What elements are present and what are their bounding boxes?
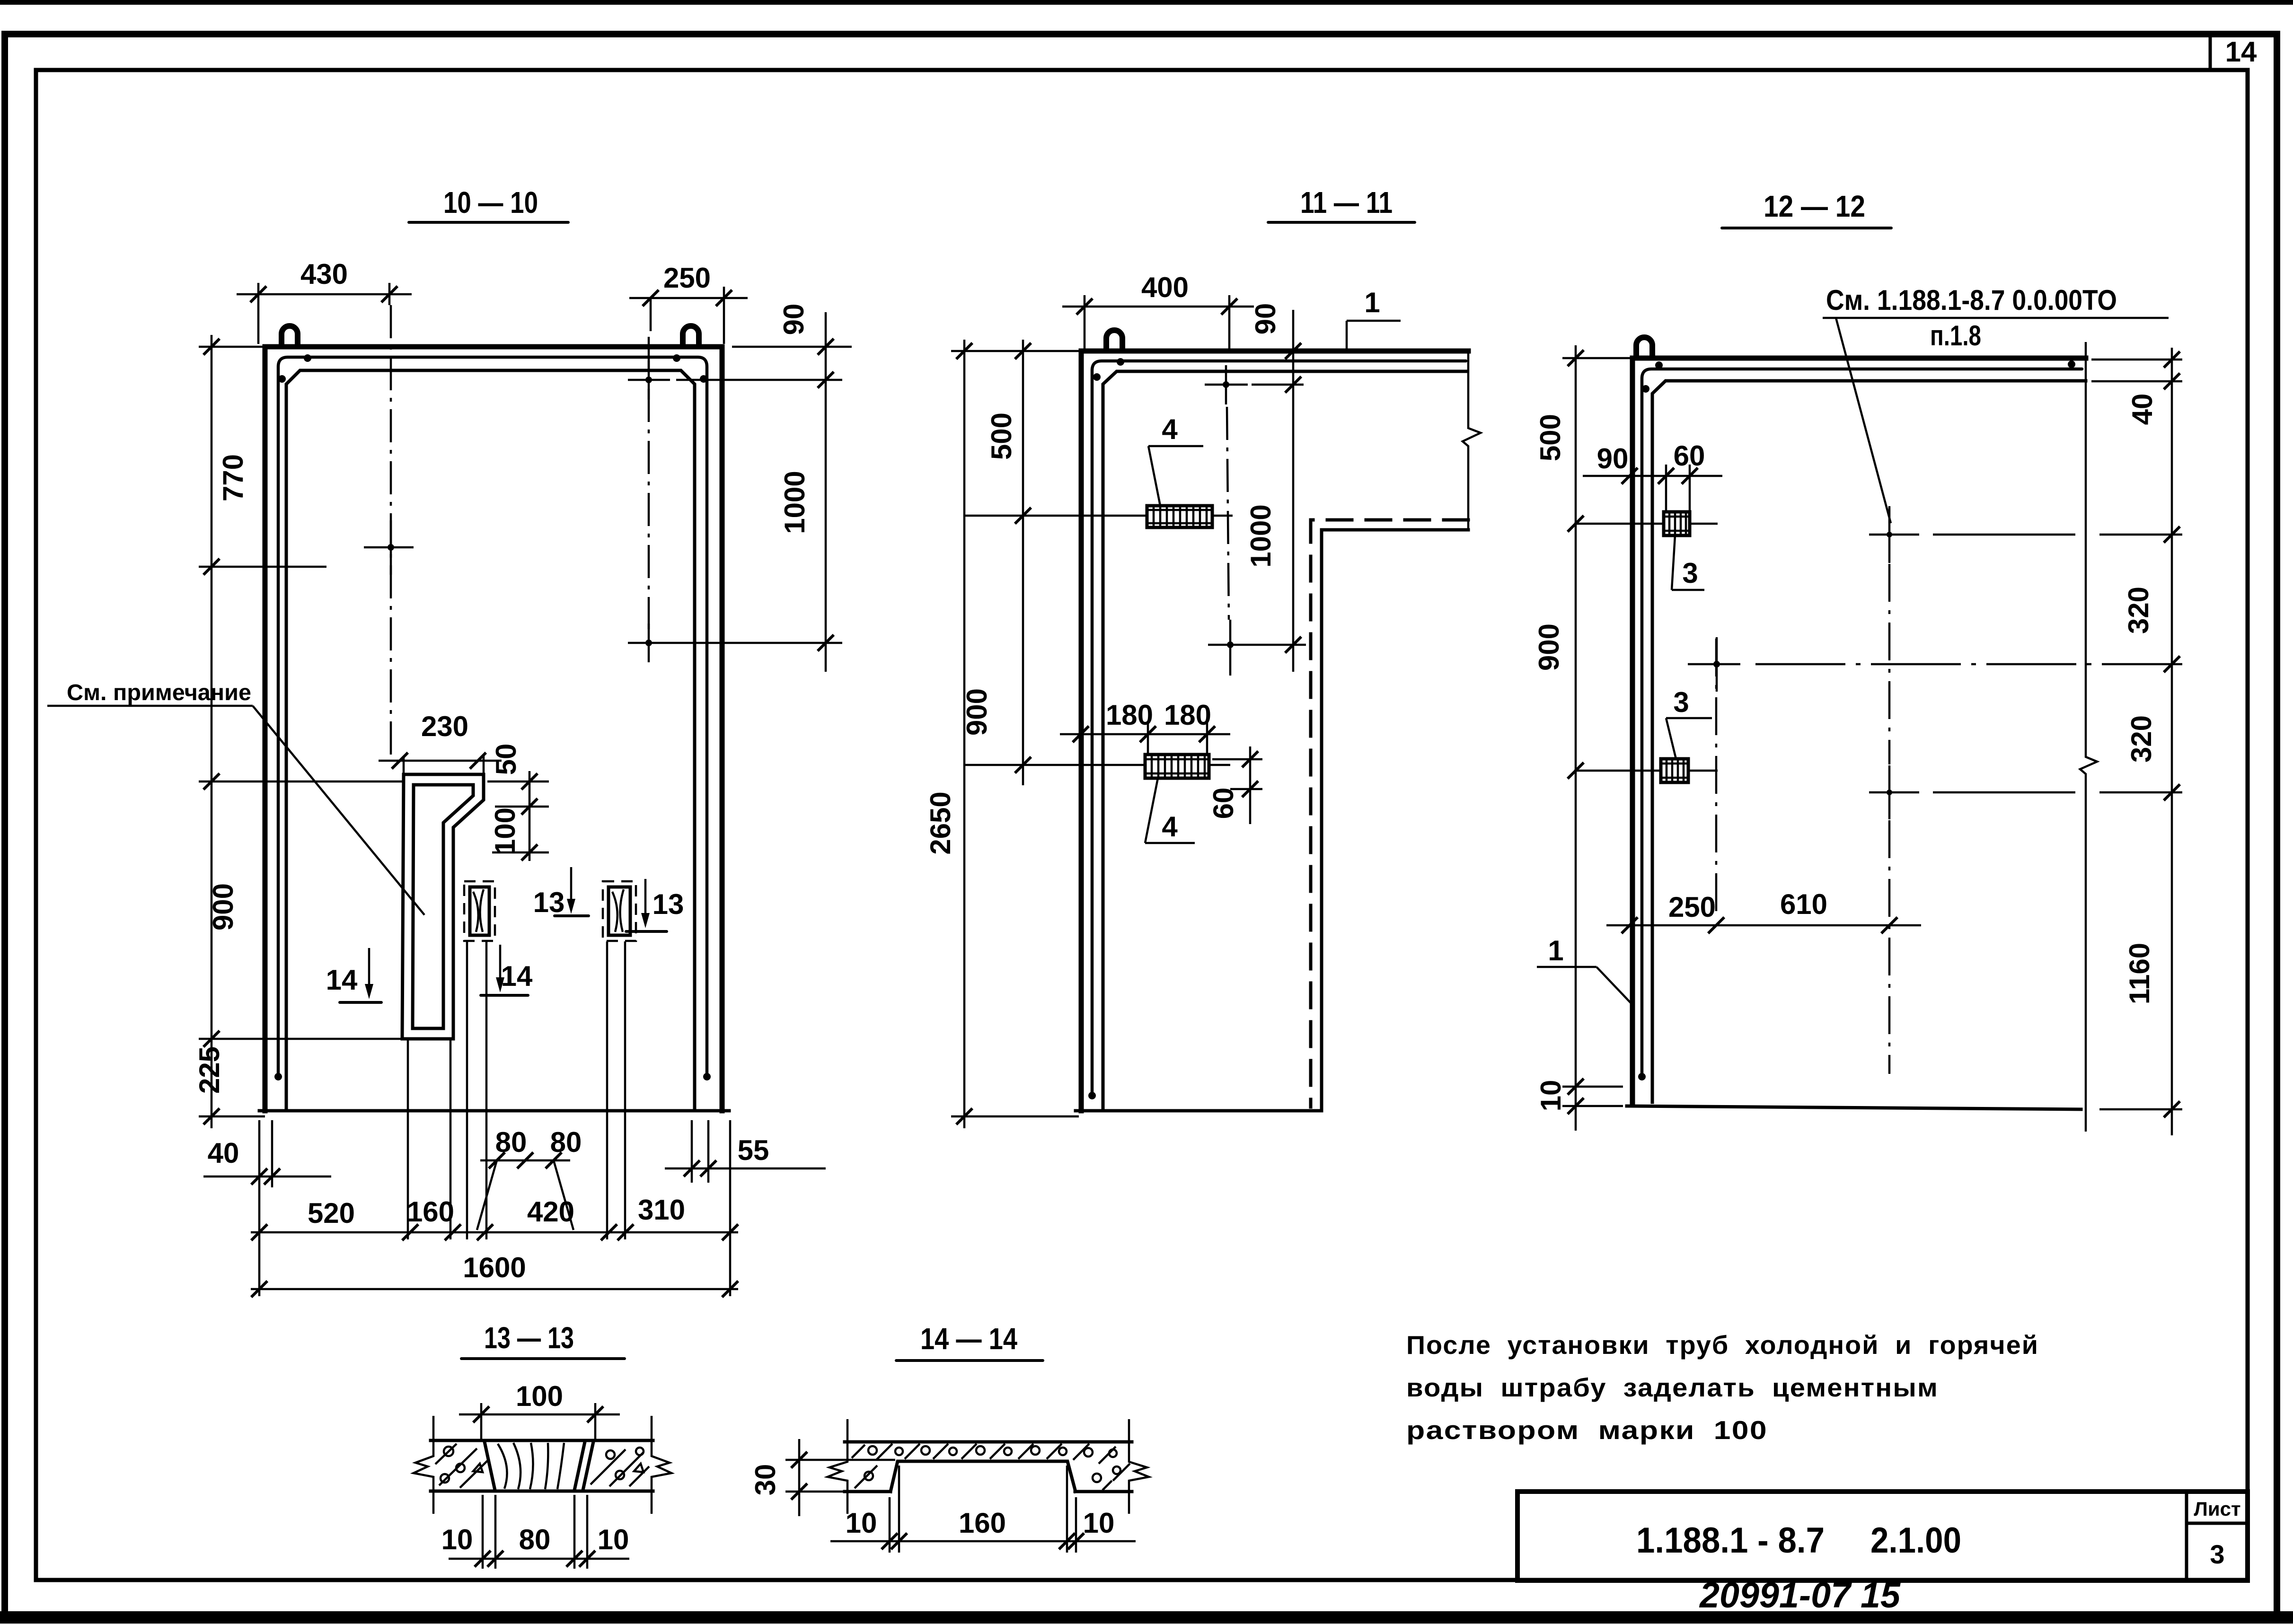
panel inner contour 12-12 [1652, 381, 2086, 1102]
panel inner contour 10-10 [286, 370, 695, 1111]
svg-text:90: 90 [1250, 303, 1281, 335]
svg-text:1000: 1000 [1245, 504, 1277, 567]
centerline right 10-10 [648, 337, 650, 629]
svg-text:225: 225 [194, 1046, 225, 1094]
left dim line 10-10 [199, 335, 405, 1128]
svg-text:4: 4 [1162, 413, 1178, 445]
panel bottom edge 10-10 [259, 1109, 729, 1113]
svg-text:90: 90 [778, 304, 810, 335]
panel bottom edge 12-12 [1627, 1106, 2081, 1109]
svg-text:180: 180 [1106, 699, 1153, 731]
title underline 12-12 [1722, 227, 1891, 229]
crosshair right upper 10-10 [628, 360, 670, 400]
anchor block 3 upper [1664, 512, 1690, 535]
svg-text:11 — 11: 11 — 11 [1300, 185, 1393, 219]
svg-text:13: 13 [533, 887, 565, 918]
svg-text:10: 10 [1083, 1507, 1115, 1539]
panel outer contour 10-10 [265, 347, 722, 1111]
svg-text:14: 14 [2225, 36, 2257, 68]
vertical centerline 12-12 [1888, 564, 1891, 1074]
svg-text:1000: 1000 [779, 471, 811, 534]
svg-text:раствором марки 100: раствором марки 100 [1406, 1415, 1768, 1445]
right dim line 12-12 [2099, 348, 2182, 1135]
svg-text:14: 14 [326, 964, 358, 996]
svg-text:20991-07 15: 20991-07 15 [1699, 1575, 1901, 1615]
anchor block 4 upper [1147, 506, 1212, 527]
svg-text:14 — 14: 14 — 14 [920, 1322, 1017, 1356]
panel outer contour 11-11 [1081, 351, 1468, 1111]
svg-text:250: 250 [1668, 891, 1716, 923]
svg-text:100: 100 [516, 1380, 563, 1412]
lifting loop 12-12 [1636, 337, 1652, 358]
svg-text:80: 80 [550, 1126, 582, 1158]
floor bar 14-14 top [845, 1440, 1132, 1444]
svg-text:10 — 10: 10 — 10 [443, 185, 538, 219]
rebar line 10-10 [278, 357, 707, 1077]
svg-text:770: 770 [217, 454, 249, 501]
block centerline lower 12-12 [1574, 770, 1718, 772]
svg-text:10: 10 [441, 1524, 473, 1555]
section marker 14 left [326, 948, 381, 1002]
rebar dots 10-10 [274, 1073, 282, 1080]
svg-text:Лист: Лист [2194, 1498, 2240, 1520]
dim 100 channel [489, 808, 549, 860]
title underline 13-13 [461, 1357, 625, 1360]
svg-text:430: 430 [300, 258, 348, 290]
svg-text:50: 50 [490, 744, 522, 775]
channel recess (shtraba) outer contour [402, 774, 484, 1039]
svg-text:320: 320 [2123, 587, 2154, 634]
title underline 11-11 [1268, 221, 1415, 224]
svg-text:900: 900 [1533, 623, 1565, 671]
crosshair 2 12-12 [1688, 637, 2182, 692]
svg-text:12 — 12: 12 — 12 [1764, 189, 1865, 223]
reference note see 1.188.1-8.7 [1823, 284, 2169, 523]
section marker 14 right [481, 945, 533, 995]
panel bottom edge 11-11 [1076, 1109, 1321, 1113]
svg-text:400: 400 [1141, 272, 1189, 303]
interior corner hidden dashed 11-11 [1311, 520, 1468, 1107]
svg-text:3: 3 [1682, 557, 1698, 589]
left dim line 12-12 [1562, 345, 1633, 1131]
label 4 upper leader [1148, 413, 1203, 506]
svg-text:520: 520 [308, 1197, 355, 1229]
svg-text:воды штрабу заделать цемен: воды штрабу заделать цементным [1406, 1373, 1939, 1402]
svg-text:55: 55 [738, 1134, 769, 1166]
svg-text:250: 250 [663, 262, 711, 294]
dim 60 11-11 [1208, 746, 1262, 824]
panel outer contour 12-12 [1632, 358, 2086, 1102]
bar right end break 13-13 [652, 1416, 671, 1514]
concrete hatch left 13-13 [435, 1444, 487, 1488]
centerline left 10-10 [390, 305, 392, 757]
dim 1000 right 10-10 [670, 416, 842, 672]
dim 90 11-11 [1250, 303, 1304, 416]
extension lines below block B [606, 941, 609, 1239]
title underline 14-14 [896, 1359, 1043, 1362]
svg-text:3: 3 [2210, 1539, 2224, 1569]
title block list divider [2185, 1492, 2188, 1580]
lifting loop right 10-10 [683, 326, 699, 347]
dim 50 channel [487, 744, 549, 861]
left dim line 500/900 11-11 [1015, 340, 1031, 785]
dim 55 bottom [665, 1134, 826, 1176]
svg-text:610: 610 [1780, 888, 1827, 920]
svg-text:90: 90 [1597, 443, 1629, 474]
dim 230 channel [379, 711, 502, 774]
dim 1000 11-11 [1245, 416, 1306, 672]
svg-text:160: 160 [407, 1196, 454, 1228]
dim 90 right 10-10 [676, 304, 852, 416]
anchor block 4 lower [1145, 755, 1209, 778]
label 1 leader top 11-11 [1347, 287, 1401, 351]
sheet number cell divider [2209, 34, 2212, 70]
bottom scan edge band [0, 1611, 2293, 1624]
dim row 520/160/420/310 [251, 1194, 738, 1240]
interior corner solid 11-11 [1322, 530, 1468, 1111]
embedded block A dashed recess [464, 881, 495, 941]
svg-text:60: 60 [1208, 788, 1239, 819]
wood plug right edges [574, 1442, 585, 1490]
section marker 13 left [533, 867, 589, 918]
extension lines below block A [466, 941, 468, 1239]
svg-text:180: 180 [1164, 699, 1211, 731]
svg-text:10: 10 [1535, 1080, 1567, 1112]
svg-text:10: 10 [846, 1507, 877, 1539]
bar left end break 13-13 [414, 1416, 433, 1514]
dim 1600 [251, 1252, 738, 1297]
svg-text:14: 14 [501, 960, 533, 992]
svg-text:320: 320 [2125, 715, 2157, 763]
panel inner contour 11-11 [1103, 371, 1467, 1111]
aggregate dots 14-14 [864, 1446, 1120, 1482]
channel recess inner contour [413, 785, 473, 1028]
crosshair 1 12-12 [1869, 506, 2182, 563]
crosshair upper 11-11 [1205, 365, 1248, 404]
svg-text:1.188.1 - 8.7: 1.188.1 - 8.7 [1636, 1520, 1825, 1561]
svg-text:900: 900 [207, 883, 239, 931]
lifting loop left 10-10 [282, 326, 298, 347]
block centerline upper 11-11 [965, 515, 1233, 517]
crosshair on left centerline [364, 520, 414, 575]
svg-text:80: 80 [519, 1524, 551, 1555]
svg-text:230: 230 [421, 711, 468, 742]
anchor block 3 lower [1661, 759, 1688, 782]
embedded block B wood plug [609, 887, 630, 935]
dim 180 180 11-11 [1060, 699, 1230, 755]
dim 430 top [237, 258, 412, 344]
embedded block B dashed recess [603, 881, 636, 941]
top scan edge line [0, 0, 2293, 5]
wood grain 13-13 [498, 1443, 564, 1489]
label 3 upper leader [1672, 535, 1704, 590]
title block outline [1517, 1492, 2248, 1580]
svg-text:13 — 13: 13 — 13 [484, 1321, 574, 1355]
svg-text:1160: 1160 [2124, 943, 2155, 1004]
dim 250/610 12-12 [1606, 888, 1921, 933]
rebar line 12-12 [1642, 369, 2082, 1077]
wood plug left edge [485, 1442, 495, 1490]
dim 30 14-14 [750, 1439, 895, 1516]
extension lines below channel [407, 1039, 409, 1239]
right break extension line 12-12 [2080, 342, 2097, 1132]
dim 10/160/10 14-14 [830, 1466, 1136, 1553]
dim 40 bottom [203, 1137, 331, 1185]
wall bar 13-13 top/bottom [431, 1439, 653, 1442]
block centerline lower 11-11 [965, 764, 1230, 766]
svg-text:900: 900 [961, 688, 993, 736]
break line right 11-11 [1463, 351, 1481, 530]
svg-text:3: 3 [1673, 686, 1689, 718]
dim 250 top [629, 262, 748, 344]
label 3 lower leader [1666, 686, 1712, 759]
svg-text:310: 310 [638, 1194, 685, 1226]
svg-text:1: 1 [1548, 935, 1563, 966]
svg-text:500: 500 [1535, 414, 1566, 461]
left dim line 2650 11-11 [951, 340, 1084, 1128]
dim 10/80/10 13-13 [441, 1495, 629, 1569]
svg-text:40: 40 [208, 1137, 239, 1169]
svg-text:160: 160 [959, 1507, 1006, 1539]
floor bar 14-14 bottom ends [845, 1490, 891, 1493]
svg-text:После установки труб холодной: После установки труб холодной и горячей [1406, 1330, 2039, 1360]
extension lines for 40/55 [258, 1120, 261, 1296]
dim 100 13-13 [459, 1380, 620, 1439]
svg-text:100: 100 [489, 808, 521, 855]
crosshair right lower 10-10 [628, 623, 670, 662]
svg-text:п.1.8: п.1.8 [1930, 320, 1981, 351]
svg-text:1: 1 [1364, 287, 1380, 318]
embedded block B wood grain [612, 889, 624, 932]
svg-text:2650: 2650 [925, 791, 956, 854]
dim 90/60 12-12 [1583, 440, 1722, 512]
channel groove 14-14 [891, 1461, 1076, 1492]
label 4 lower leader [1145, 778, 1195, 843]
svg-text:13: 13 [653, 888, 684, 920]
svg-text:См. 1.188.1-8.7 0.0.00ТО: См. 1.188.1-8.7 0.0.00ТО [1826, 284, 2117, 316]
label 1 leader 12-12 [1537, 935, 1633, 1006]
concrete hatch right 13-13 [591, 1449, 649, 1486]
title underline 10-10 [409, 221, 568, 224]
svg-text:30: 30 [750, 1464, 781, 1496]
embedded block A wood plug [470, 887, 489, 935]
svg-text:420: 420 [527, 1196, 574, 1228]
svg-text:500: 500 [986, 413, 1017, 460]
block centerline upper 12-12 [1574, 523, 1718, 525]
svg-text:40: 40 [2126, 394, 2158, 425]
centerline 11-11 [1227, 407, 1229, 620]
note label see remark [47, 680, 424, 915]
embedded block A wood grain [473, 889, 484, 932]
crosshair 3 12-12 [1869, 765, 2182, 819]
title block list header divider [2187, 1522, 2248, 1525]
crosshair lower 11-11 [1208, 620, 1259, 676]
rebar dots 11-11 [1088, 1092, 1096, 1099]
rebar line 11-11 [1092, 361, 1466, 1096]
hatch strip 14-14 [852, 1444, 1130, 1490]
svg-text:См. примечание: См. примечание [67, 680, 251, 705]
svg-text:10: 10 [598, 1524, 629, 1555]
lifting loop 11-11 [1106, 330, 1122, 351]
vertical centerline 250/610 12-12 [1715, 639, 1718, 918]
section marker 13 right [626, 879, 684, 931]
svg-text:1600: 1600 [463, 1252, 526, 1283]
svg-text:4: 4 [1162, 811, 1178, 843]
channel trapezoid above dim row [477, 1126, 582, 1230]
rebar dots 12-12 [1638, 1073, 1646, 1080]
bar left end break 14-14 [828, 1419, 847, 1514]
bar right end break 14-14 [1129, 1419, 1149, 1514]
dim 400 top 11-11 [1062, 272, 1254, 351]
svg-text:80: 80 [495, 1126, 527, 1158]
svg-text:2.1.00: 2.1.00 [1870, 1520, 1961, 1561]
right slab end extensions 12-12 [2091, 360, 2182, 381]
